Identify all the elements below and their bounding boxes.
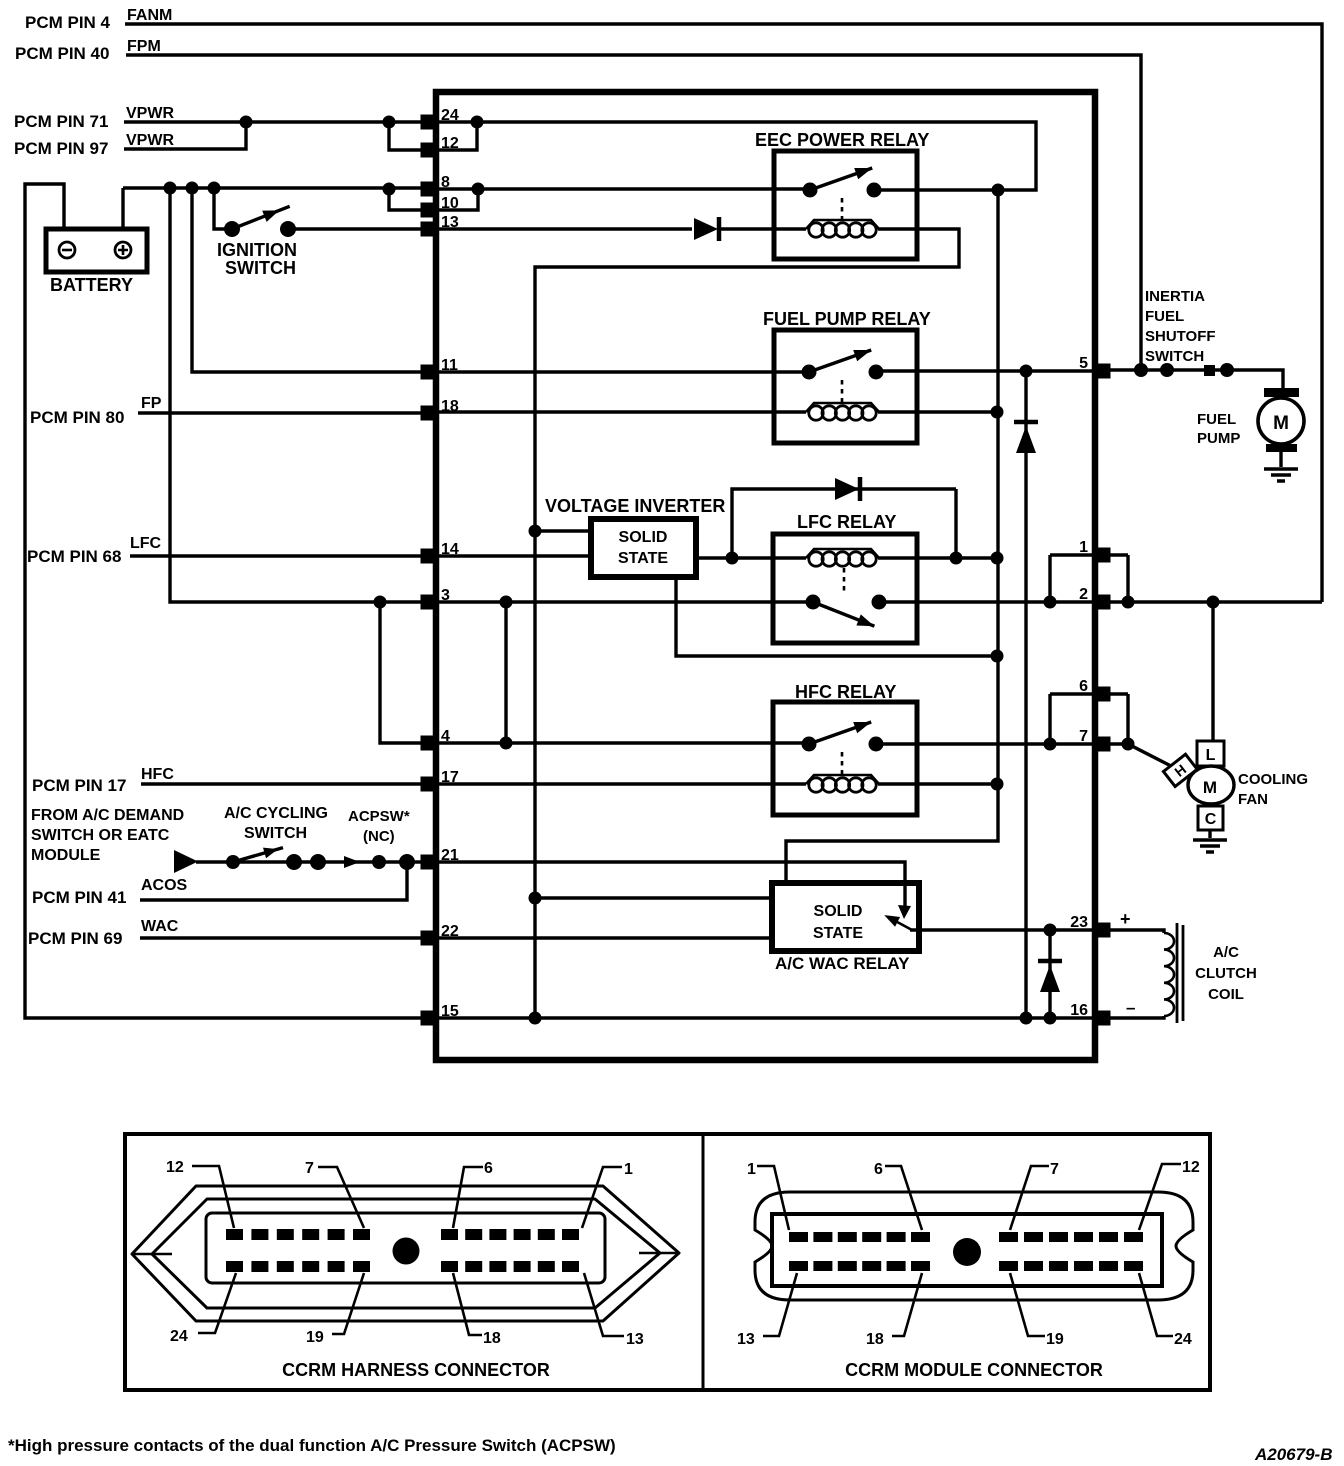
svg-text:12: 12 xyxy=(441,135,459,152)
svg-text:COOLING: COOLING xyxy=(1238,771,1308,788)
svg-text:7: 7 xyxy=(1079,728,1088,745)
junction bracket / pin-7 line (right) xyxy=(1122,738,1135,751)
svg-text:*High pressure contacts of the: *High pressure contacts of the dual func… xyxy=(8,1436,616,1455)
wire pin 8 to EEC relay left contact xyxy=(437,187,808,190)
svg-text:SWITCH: SWITCH xyxy=(1145,348,1204,365)
LFC relay switch left contact xyxy=(806,595,821,610)
junction bus / WAC solid state xyxy=(529,892,542,905)
svg-text:24: 24 xyxy=(441,107,459,124)
wire pin 17 to HFC relay coil xyxy=(437,782,806,785)
wire pin 5 through inertia switch to fuel pump xyxy=(1110,370,1283,389)
svg-text:FUEL: FUEL xyxy=(1145,308,1184,325)
svg-text:4: 4 xyxy=(441,728,450,745)
wire pin 13 to diode CR1 xyxy=(437,227,692,230)
relay K4 HFC RELAY box xyxy=(773,702,917,815)
svg-text:19: 19 xyxy=(306,1329,324,1346)
svg-text:A/C WAC RELAY: A/C WAC RELAY xyxy=(775,954,910,973)
wire jumper bracket pins 6-7 xyxy=(1050,694,1128,744)
svg-text:SOLID: SOLID xyxy=(619,529,668,546)
pin 3 pad (CCRM left edge) xyxy=(421,595,438,610)
wire jumper pin8-pin10 left strap xyxy=(389,189,423,210)
pin 13 pad (CCRM left edge) xyxy=(421,222,438,237)
junction pin-3 line / right drop to pin 4 xyxy=(500,596,513,609)
A/C cycling switch contact b xyxy=(310,854,326,870)
wire voltage inverter bottom to relay-coil bus xyxy=(676,577,997,656)
WAC output arrow into pin-23 line xyxy=(888,917,912,930)
svg-text:L: L xyxy=(1206,747,1216,764)
A/C demand input arrow xyxy=(174,850,198,873)
svg-text:C: C xyxy=(1205,811,1217,828)
pin 1 pad (CCRM right edge) xyxy=(1094,548,1111,563)
wire pin 2 to cooling fan feed xyxy=(1110,600,1322,603)
svg-text:PCM PIN 69: PCM PIN 69 xyxy=(28,929,122,948)
wire FANM: PCM PIN 4 to cooling-fan node (right edge drop) xyxy=(125,24,1322,602)
svg-text:SOLID: SOLID xyxy=(814,903,863,920)
svg-text:IGNITION: IGNITION xyxy=(217,240,297,260)
relay K3 LFC RELAY box xyxy=(773,534,917,643)
svg-text:MODULE: MODULE xyxy=(31,847,101,864)
wire drop pin-3 line to pin-4 line (right) xyxy=(504,602,507,743)
svg-text:PCM PIN 80: PCM PIN 80 xyxy=(30,408,124,427)
CCRM module connector outline xyxy=(755,1192,1193,1300)
svg-text:M: M xyxy=(1203,778,1217,797)
svg-text:24: 24 xyxy=(1174,1331,1192,1348)
EEC relay switch blade xyxy=(808,162,874,195)
pin 18 pad (CCRM left edge) xyxy=(421,406,438,421)
wire pin 7 to cooling fan H terminal xyxy=(1110,744,1171,766)
svg-text:13: 13 xyxy=(441,214,459,231)
ACPSW contact b / ACOS junction xyxy=(399,854,415,870)
wire FP from PCM PIN 80 to pin 18 xyxy=(138,411,428,414)
wire pin 3 to LFC relay switch xyxy=(437,600,813,603)
junction battery feed / pin-3 branch xyxy=(164,182,177,195)
EEC relay armature (dashed) xyxy=(841,198,844,221)
wire relay-coil common bus (EEC output) down to A/C WAC solid state xyxy=(786,190,998,883)
pin 23 pad (CCRM right edge) xyxy=(1094,923,1111,938)
wire jumper pin24-pin12 right strap xyxy=(437,122,477,150)
svg-text:7: 7 xyxy=(1050,1161,1059,1178)
wire pin 22 to A/C WAC solid state xyxy=(437,936,772,939)
wire fan feed drop to cooling fan L terminal xyxy=(1211,602,1214,741)
svg-text:COIL: COIL xyxy=(1208,986,1244,1003)
relay K2 FUEL PUMP RELAY box xyxy=(774,330,917,443)
svg-text:FROM A/C DEMAND: FROM A/C DEMAND xyxy=(31,807,184,824)
svg-text:15: 15 xyxy=(441,1003,459,1020)
svg-text:6: 6 xyxy=(1079,678,1088,695)
wire inverter output up and over through diode CR3 xyxy=(732,489,956,558)
EEC relay switch left contact xyxy=(803,183,818,198)
junction pin-3 line / left drop to pin 4 xyxy=(374,596,387,609)
wire pin 21 into A/C WAC solid state (gate) xyxy=(437,862,905,908)
svg-text:1: 1 xyxy=(747,1161,756,1178)
junction pin-5 line / flyback diode branch xyxy=(1020,365,1033,378)
svg-text:VPWR: VPWR xyxy=(126,105,174,122)
ignition switch right contact xyxy=(280,221,296,237)
svg-text:CLUTCH: CLUTCH xyxy=(1195,965,1257,982)
wire diode CR1 to EEC coil xyxy=(721,227,806,230)
wire pin 24 VPWR to EEC relay contact (inside) xyxy=(437,122,1036,190)
ignition switch blade xyxy=(230,201,292,235)
fuel pump relay switch blade xyxy=(807,344,873,377)
svg-text:CCRM HARNESS CONNECTOR: CCRM HARNESS CONNECTOR xyxy=(282,1360,550,1380)
EEC relay coil xyxy=(806,220,879,229)
harness connector index post xyxy=(393,1238,420,1265)
svg-text:3: 3 xyxy=(441,587,450,604)
pin 17 pad (CCRM left edge) xyxy=(421,777,438,792)
CCRM harness connector outline (inner hexagon) xyxy=(152,1199,660,1308)
junction battery feed / pin-11 branch xyxy=(186,182,199,195)
module connector pins top row (1..6 / 7..12) xyxy=(789,1232,808,1242)
voltage inverter U1 (solid state) box xyxy=(591,519,696,577)
module connector pin field xyxy=(772,1214,1162,1286)
svg-text:18: 18 xyxy=(483,1330,501,1347)
fuel pump relay coil xyxy=(806,403,879,412)
ignition switch left contact xyxy=(224,221,240,237)
wire HFC from PCM PIN 17 to pin 17 xyxy=(141,782,428,785)
wire jumper pin24 to pin12 (left strap) xyxy=(389,122,423,150)
svg-text:PCM PIN 97: PCM PIN 97 xyxy=(14,139,108,158)
diode CR2 (clamp, pin 5 branch) xyxy=(1014,420,1038,425)
A/C cycling switch pivot contact xyxy=(226,855,240,869)
wire coil-return bus tap to voltage inverter top input xyxy=(535,529,591,532)
wire ACOS from PCM PIN 41 up to ACPSW node xyxy=(140,862,407,900)
connector frame divider xyxy=(702,1134,705,1390)
svg-text:PCM PIN 40: PCM PIN 40 xyxy=(15,44,109,63)
svg-text:PUMP: PUMP xyxy=(1197,430,1240,447)
ground (fuel pump) xyxy=(1264,469,1298,481)
ground (cooling fan) xyxy=(1193,840,1227,852)
svg-text:SWITCH: SWITCH xyxy=(244,825,307,842)
pin 7 pad (CCRM right edge) xyxy=(1094,737,1111,752)
junction bracket / pin-7 line (left) xyxy=(1044,738,1057,751)
svg-text:PCM PIN 71: PCM PIN 71 xyxy=(14,112,108,131)
svg-text:FAN: FAN xyxy=(1238,791,1268,808)
junction right strap pins 8-10 xyxy=(472,183,485,196)
LFC relay armature (dashed) xyxy=(843,568,846,595)
svg-text:FANM: FANM xyxy=(127,7,172,24)
pin 12 pad (CCRM left edge) xyxy=(421,143,438,158)
pin 2 pad (CCRM right edge) xyxy=(1094,595,1111,610)
svg-text:EEC POWER RELAY: EEC POWER RELAY xyxy=(755,130,929,150)
svg-text:VOLTAGE INVERTER: VOLTAGE INVERTER xyxy=(545,496,725,516)
junction VPWR 71/97 xyxy=(240,116,253,129)
ACPSW contact a xyxy=(372,855,386,869)
HFC relay armature (dashed) xyxy=(841,752,844,776)
wire pin 4 to HFC relay switch xyxy=(437,741,808,744)
svg-text:FPM: FPM xyxy=(127,38,161,55)
svg-text:WAC: WAC xyxy=(141,918,179,935)
wire drop pin-3 line to pin-4 line (left) xyxy=(380,602,428,743)
svg-text:M: M xyxy=(1273,413,1289,434)
junction inverter output / diode branch xyxy=(726,552,739,565)
diode CR1 (ignition feed to EEC coil) xyxy=(694,218,718,240)
ignition switch S1 xyxy=(214,188,232,229)
wire WAC from PCM PIN 69 to pin 22 xyxy=(140,936,428,939)
svg-text:SWITCH OR EATC: SWITCH OR EATC xyxy=(31,827,170,844)
pin 16 pad (CCRM right edge) xyxy=(1094,1011,1111,1026)
wire flyback diode branch pin5 to pin15/16 line xyxy=(1024,371,1027,1018)
svg-text:13: 13 xyxy=(737,1331,755,1348)
wire pin 23 to A/C clutch coil (+) xyxy=(1110,930,1164,933)
svg-text:FP: FP xyxy=(141,395,162,412)
svg-text:PCM PIN 17: PCM PIN 17 xyxy=(32,776,126,795)
pin 22 pad (CCRM left edge) xyxy=(421,931,438,946)
pin 14 pad (CCRM left edge) xyxy=(421,549,438,564)
svg-text:5: 5 xyxy=(1079,355,1088,372)
wire diode CR3 branch down to LFC coil right xyxy=(954,489,957,558)
wire pin 14 to voltage inverter xyxy=(437,554,591,557)
harness connector pins bottom row (24..19 / 18..13) xyxy=(226,1261,243,1272)
svg-text:7: 7 xyxy=(305,1160,314,1177)
wire EEC coil return bus (drops to pin-15 ground line) xyxy=(535,229,959,1018)
svg-text:A20679-B: A20679-B xyxy=(1254,1445,1333,1464)
pin 6 pad (CCRM right edge) xyxy=(1094,687,1111,702)
cooling fan motor M2 xyxy=(1197,741,1224,766)
wire battery negative to pin 15 (ground return loop) xyxy=(25,184,429,1018)
svg-text:HFC RELAY: HFC RELAY xyxy=(795,682,896,702)
pin 5 pad (CCRM right edge) xyxy=(1094,364,1111,379)
svg-text:LFC: LFC xyxy=(130,535,162,552)
module connector pins bottom row (13..18 / 19..24) xyxy=(789,1261,808,1271)
wire clamp diode branch pin 23 to pin 16 line xyxy=(1048,930,1051,1018)
HFC relay switch left contact xyxy=(802,737,817,752)
junction bracket / pin-2 line (right) xyxy=(1122,596,1135,609)
svg-text:12: 12 xyxy=(1182,1159,1200,1176)
wire pin 11 to fuel pump relay left contact xyxy=(437,370,808,373)
junction battery feed / ignition branch xyxy=(208,182,221,195)
wire A/C clutch coil (-) to pin 16 xyxy=(1110,1016,1164,1018)
wire ignition switch to CCRM pin 13 xyxy=(288,227,428,230)
wire FPM: PCM PIN 40 to inertia switch node xyxy=(126,55,1141,370)
wire VPWR from PCM PIN 71 to CCRM pin 24 xyxy=(124,120,428,123)
inertia fuel shutoff switch contacts xyxy=(1134,363,1148,377)
svg-text:SWITCH: SWITCH xyxy=(225,258,296,278)
flow arrow on ACPSW line xyxy=(344,856,360,868)
junction bracket / pin-2 line (left) xyxy=(1044,596,1057,609)
svg-text:6: 6 xyxy=(874,1161,883,1178)
wire LFC coil right to relay-coil bus xyxy=(878,556,997,559)
junction EEC output / relay-coil bus xyxy=(992,184,1005,197)
A/C WAC relay U2 (solid state) box xyxy=(772,883,919,951)
svg-text:1: 1 xyxy=(1079,539,1088,556)
HFC relay coil xyxy=(806,775,879,784)
junction drop / pin-4 line xyxy=(500,737,513,750)
svg-text:+: + xyxy=(1120,909,1131,929)
pin 8 pad (CCRM left edge) xyxy=(421,182,438,197)
svg-text:14: 14 xyxy=(441,541,459,558)
svg-text:8: 8 xyxy=(441,174,450,191)
wire HFC coil to relay-coil bus xyxy=(878,782,997,785)
diode CR4 (A/C clutch clamp) xyxy=(1038,959,1062,964)
wire pin 15 to pin 16 ground line xyxy=(437,1016,1094,1019)
fuel pump relay armature (dashed) xyxy=(841,380,844,404)
CCRM module outline xyxy=(436,92,1095,1060)
svg-text:12: 12 xyxy=(166,1159,184,1176)
pin 15 pad (CCRM left edge) xyxy=(421,1011,438,1026)
LFC relay switch right contact xyxy=(872,595,887,610)
svg-text:22: 22 xyxy=(441,923,459,940)
wire jumper pin8-pin10 right strap xyxy=(437,189,478,210)
svg-text:STATE: STATE xyxy=(813,925,863,942)
svg-text:LFC RELAY: LFC RELAY xyxy=(797,512,896,532)
svg-text:(NC): (NC) xyxy=(363,828,395,845)
svg-text:23: 23 xyxy=(1070,914,1088,931)
svg-text:ACPSW*: ACPSW* xyxy=(348,808,410,825)
svg-text:INERTIA: INERTIA xyxy=(1145,288,1205,305)
svg-text:13: 13 xyxy=(626,1331,644,1348)
junction right strap pins 24-12 xyxy=(471,116,484,129)
wire battery branch to pin 11 xyxy=(192,188,428,372)
LFC relay coil xyxy=(806,549,879,558)
HFC relay switch right contact xyxy=(869,737,884,752)
svg-text:A/C CYCLING: A/C CYCLING xyxy=(224,805,328,822)
pin 24 pad (CCRM left edge) xyxy=(421,115,438,130)
svg-text:CCRM MODULE CONNECTOR: CCRM MODULE CONNECTOR xyxy=(845,1360,1103,1380)
svg-text:1: 1 xyxy=(624,1161,633,1178)
junction left strap pins 24-12 xyxy=(383,116,396,129)
fuel pump relay switch right contact xyxy=(869,365,884,380)
junction clamp diode / pin 15-16 line xyxy=(1044,1012,1057,1025)
HFC relay switch blade xyxy=(807,716,873,749)
fuel pump relay switch left contact xyxy=(802,365,817,380)
svg-text:STATE: STATE xyxy=(618,550,668,567)
module connector index post xyxy=(953,1238,981,1266)
svg-text:24: 24 xyxy=(170,1328,188,1345)
svg-text:ACOS: ACOS xyxy=(141,877,188,894)
connector detail outer frame xyxy=(125,1134,1210,1390)
wire voltage inverter output to LFC coil xyxy=(696,556,806,559)
svg-text:HFC: HFC xyxy=(141,766,174,783)
junction inverter return / bus xyxy=(991,650,1004,663)
wire battery positive riser xyxy=(121,188,124,229)
wire pin 18 to fuel pump relay coil xyxy=(437,410,806,413)
junction diode branch / pin 15-16 line xyxy=(1020,1012,1033,1025)
svg-text:PCM PIN 41: PCM PIN 41 xyxy=(32,888,126,907)
svg-text:6: 6 xyxy=(484,1160,493,1177)
svg-text:18: 18 xyxy=(866,1331,884,1348)
wire HFC relay output to pin 7 xyxy=(876,742,1094,745)
harness connector pins top row (12..7 / 6..1) xyxy=(226,1229,243,1240)
svg-text:VPWR: VPWR xyxy=(126,132,174,149)
A/C cycling switch contact a xyxy=(286,854,302,870)
pin 10 pad (CCRM left edge) xyxy=(421,203,438,218)
LFC relay switch blade xyxy=(811,596,877,631)
wire battery branch to pin 3 xyxy=(170,188,428,602)
junction coil-return bus / pin 15 line xyxy=(529,1012,542,1025)
relay K1 EEC POWER RELAY box xyxy=(774,151,917,259)
wire LFC relay output to pin 2 xyxy=(879,600,1094,603)
svg-text:16: 16 xyxy=(1070,1002,1088,1019)
wire fuel pump relay output to pin 5 xyxy=(876,369,1094,372)
junction pin-23 line / clamp diode xyxy=(1044,924,1057,937)
svg-text:FUEL: FUEL xyxy=(1197,411,1236,428)
svg-text:18: 18 xyxy=(441,398,459,415)
CCRM harness connector outline (outer hexagon) xyxy=(132,1186,679,1321)
wire coil-return bus tap to A/C WAC solid state xyxy=(535,896,772,899)
junction diode branch / LFC coil xyxy=(950,552,963,565)
diode CR3 (LFC coil feed) xyxy=(835,478,859,500)
svg-text:PCM PIN 4: PCM PIN 4 xyxy=(25,13,111,32)
pin 11 pad (CCRM left edge) xyxy=(421,365,438,380)
wire A/C demand through cycling switch and ACPSW to pin 21 xyxy=(196,860,428,863)
svg-text:11: 11 xyxy=(441,357,458,374)
svg-text:2: 2 xyxy=(1079,586,1088,603)
junction LFC coil / bus xyxy=(991,552,1004,565)
pin 4 pad (CCRM left edge) xyxy=(421,736,438,751)
svg-text:10: 10 xyxy=(441,195,459,212)
wire battery feed to CCRM pin 8 xyxy=(123,186,428,189)
EEC relay switch right contact xyxy=(867,183,882,198)
svg-text:A/C: A/C xyxy=(1213,944,1239,961)
A/C cycling switch blade xyxy=(231,842,284,867)
harness connector pin field xyxy=(206,1213,605,1283)
svg-text:19: 19 xyxy=(1046,1331,1064,1348)
battery B1 xyxy=(46,229,147,272)
wire jumper bracket pins 1-2 xyxy=(1050,555,1128,602)
cooling fan H terminal (rotated) xyxy=(1163,754,1197,786)
svg-text:BATTERY: BATTERY xyxy=(50,275,133,295)
svg-text:21: 21 xyxy=(441,847,459,864)
pin 21 pad (CCRM left edge) xyxy=(421,855,438,870)
wire VPWR from PCM PIN 97 joining pin-71 line xyxy=(124,122,246,149)
wire LFC from PCM PIN 68 to pin 14 xyxy=(130,554,428,557)
svg-text:17: 17 xyxy=(441,769,459,786)
wire fuel pump coil to relay-coil bus xyxy=(878,410,997,413)
junction left strap pins 8-10 xyxy=(383,183,396,196)
junction bus / inverter input xyxy=(529,525,542,538)
WAC gate arrowhead xyxy=(898,905,911,919)
svg-text:FUEL PUMP RELAY: FUEL PUMP RELAY xyxy=(763,309,931,329)
fuel pump motor M1 xyxy=(1264,388,1299,397)
svg-text:SHUTOFF: SHUTOFF xyxy=(1145,328,1216,345)
junction fuel coil / relay-coil bus xyxy=(991,406,1004,419)
svg-text:PCM PIN 68: PCM PIN 68 xyxy=(27,547,121,566)
svg-text:–: – xyxy=(1126,998,1135,1017)
wire A/C WAC output to pin 23 xyxy=(910,928,1094,931)
junction HFC coil / bus xyxy=(991,778,1004,791)
harness connector tip marks xyxy=(132,1253,679,1254)
junction fan feed / FANM xyxy=(1207,596,1220,609)
